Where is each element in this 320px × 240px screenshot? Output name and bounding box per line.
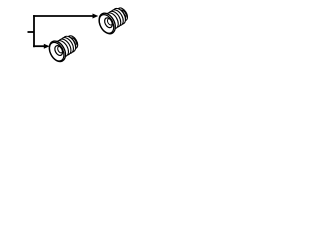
- callout tick: [28, 31, 35, 33]
- upper bushing (grommet): [96, 6, 130, 36]
- callout top horizontal line: [33, 15, 93, 17]
- background: [0, 0, 150, 69]
- top arrowhead: [93, 14, 99, 19]
- bottom arrowhead: [44, 44, 50, 49]
- callout bottom horizontal line: [33, 45, 44, 47]
- callout vertical line: [33, 15, 35, 47]
- lower bushing (grommet): [46, 34, 80, 64]
